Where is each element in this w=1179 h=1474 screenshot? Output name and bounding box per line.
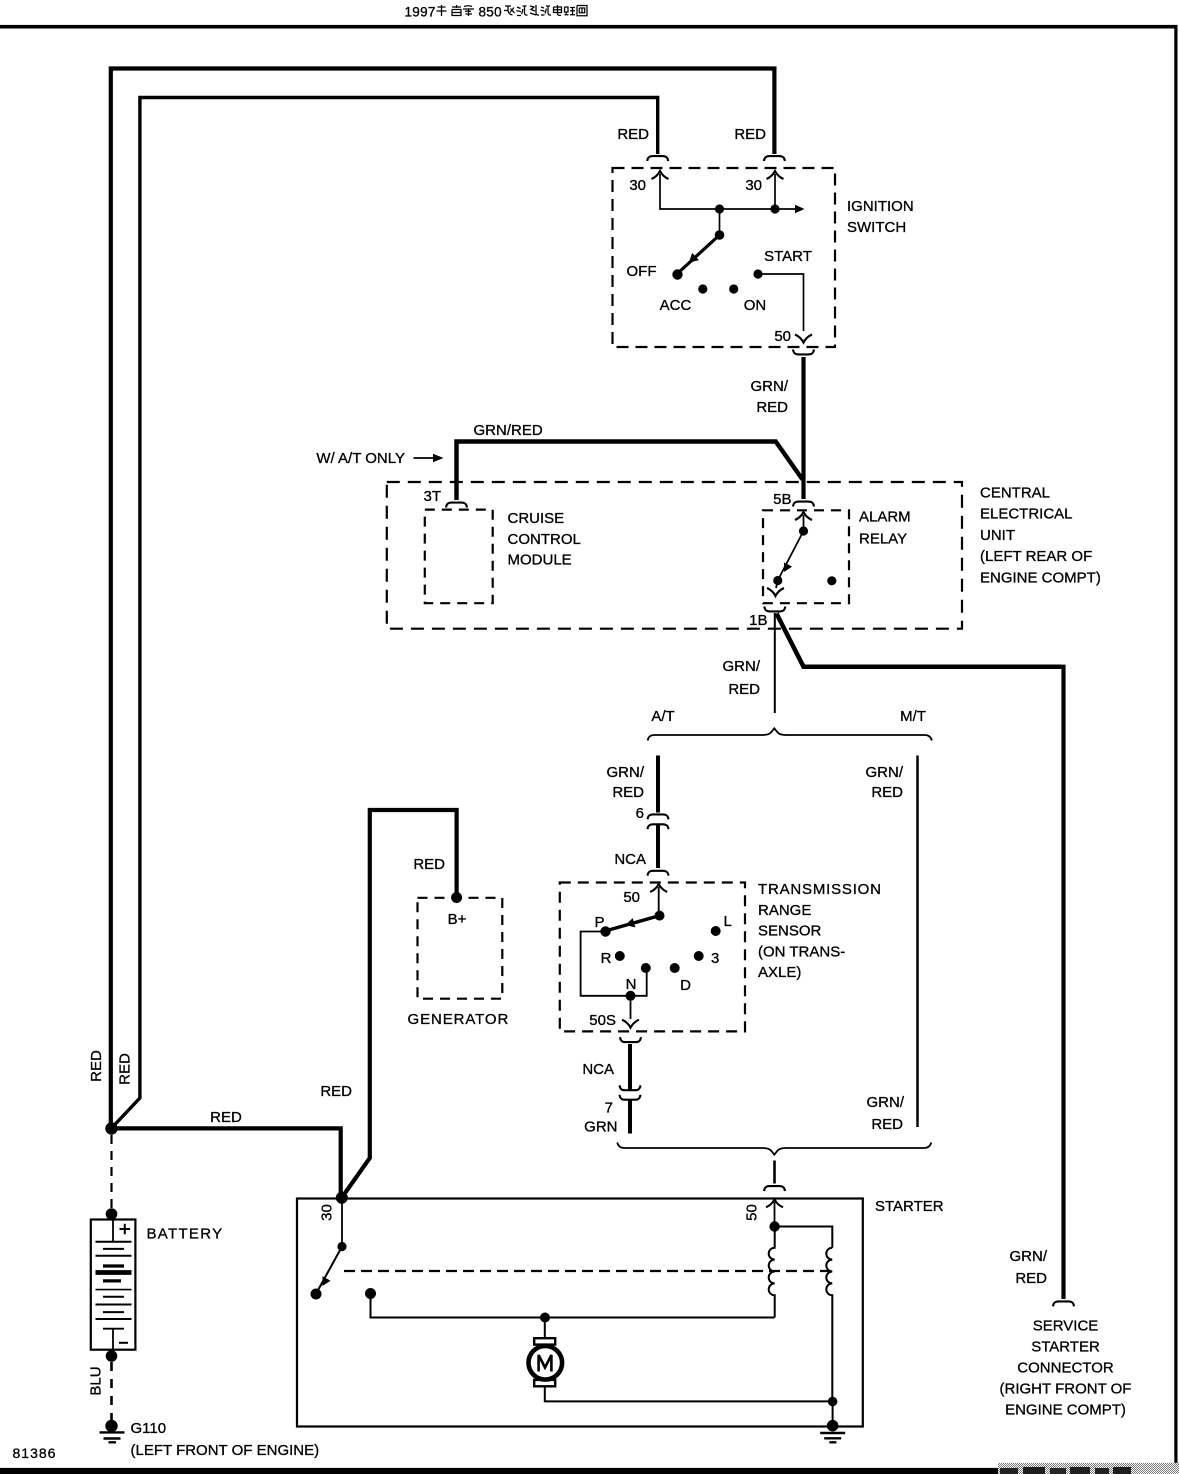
starter 30 terminal dot (336, 1192, 348, 1204)
contact 3 (694, 951, 704, 961)
wire: second feed (down left side, across, down to left ignition 30) (113, 98, 658, 1127)
alarm relay pin arrow + pole (795, 512, 812, 520)
svg-text:ACC: ACC (660, 297, 692, 314)
sensor pin 50S wire + arrow down (630, 996, 632, 1019)
svg-text:ENGINE COMPT): ENGINE COMPT) (980, 569, 1101, 586)
svg-text:3T: 3T (423, 488, 441, 505)
connector at 1B (764, 607, 785, 612)
contact START + wire to pin 50 (753, 269, 762, 278)
wire: 1B thick branch right to service starter connector (777, 614, 1062, 667)
pin 30 left: arrow + label (652, 171, 669, 179)
svg-text:NCA: NCA (582, 1061, 614, 1078)
svg-text:GRN/: GRN/ (867, 1094, 905, 1111)
wire: M/T branch GRN/RED down (916, 756, 919, 1128)
wire: 1B down to A/T-M/T brace (774, 613, 776, 713)
svg-text:ON: ON (744, 297, 767, 314)
svg-text:SWITCH: SWITCH (847, 219, 906, 236)
battery - dot (106, 1350, 118, 1362)
junction dot on bus (715, 204, 724, 213)
ignition internal bus wire (660, 174, 795, 209)
starter switch contact (365, 1288, 376, 1299)
svg-text:50: 50 (774, 328, 791, 345)
battery minus sign (119, 1342, 128, 1344)
svg-text:NCA: NCA (614, 851, 646, 868)
wire: A/T branch GRN/RED down (656, 756, 660, 813)
connector at starter 50 (764, 1186, 785, 1191)
connector at sensor 50 (648, 871, 669, 876)
ignition switch dashed box (613, 168, 836, 347)
svg-text:3: 3 (711, 950, 719, 967)
battery box (91, 1220, 136, 1350)
left pull-in coil (769, 1227, 775, 1318)
svg-text:TRANSMISSION: TRANSMISSION (758, 881, 882, 898)
svg-text:SERVICE: SERVICE (1033, 1318, 1099, 1335)
stub right 30 (774, 174, 776, 209)
svg-text:RED: RED (1015, 1270, 1047, 1287)
battery plus sign (120, 1224, 131, 1234)
svg-text:GRN/: GRN/ (866, 764, 904, 781)
brace to starter 50 (opens up) (617, 1143, 931, 1155)
svg-text:B+: B+ (448, 911, 467, 928)
svg-text:ALARM: ALARM (859, 509, 911, 526)
svg-text:M/T: M/T (900, 708, 926, 725)
svg-text:R: R (601, 950, 612, 967)
svg-text:1B: 1B (749, 612, 767, 629)
svg-text:SENSOR: SENSOR (758, 923, 822, 940)
svg-text:(LEFT REAR OF: (LEFT REAR OF (980, 548, 1092, 565)
starter 50 terminal arrow (766, 1199, 783, 1207)
svg-text:W/ A/T ONLY: W/ A/T ONLY (316, 450, 405, 467)
contact N junction (626, 991, 636, 1001)
svg-text:1997: 1997 (405, 5, 436, 20)
contact L (711, 926, 721, 936)
svg-text:A/T: A/T (651, 708, 674, 725)
svg-text:P: P (594, 914, 604, 931)
connector below ignition 50 (793, 350, 814, 355)
sensor pole dot (655, 911, 665, 921)
svg-text:81386: 81386 (13, 1445, 57, 1461)
wire: motor feed down (544, 1318, 546, 1339)
svg-text:850: 850 (479, 5, 502, 20)
svg-text:30: 30 (745, 177, 762, 194)
title: 1997年 富豪 850 起动系统电路图 (CJK drawn as glyph shapes) (405, 5, 588, 20)
svg-text:D: D (680, 977, 691, 994)
svg-text:RED: RED (413, 856, 445, 873)
wire: NCA to sensor (656, 825, 660, 869)
wire: motor return (545, 1386, 833, 1401)
junction dot 50 (769, 1221, 779, 1231)
switch lever (to OFF) (678, 235, 720, 273)
inline connector pair 7 (620, 1085, 641, 1090)
contact ON (729, 284, 738, 293)
cruise control module dashed box (425, 510, 493, 604)
motor M (534, 1338, 555, 1344)
svg-text:RED: RED (210, 1109, 242, 1126)
svg-text:50: 50 (623, 889, 640, 906)
connector below sensor 50S (620, 1037, 641, 1042)
brace A/T - M/T (opens down) (648, 728, 932, 740)
svg-text:RELAY: RELAY (859, 531, 907, 548)
generator dashed box (418, 898, 503, 999)
wire: battery feed (junction up, across top, down to right ignition 30) (111, 69, 775, 1129)
contact dot above N (641, 963, 651, 973)
connector at left 30 (647, 156, 668, 161)
wire P to N contact (581, 932, 647, 996)
connector at right 30 (764, 156, 785, 161)
svg-text:(LEFT FRONT OF ENGINE): (LEFT FRONT OF ENGINE) (131, 1442, 320, 1459)
svg-text:OFF: OFF (627, 263, 657, 280)
starter solenoid switch pole (341, 1198, 343, 1246)
connector at service starter end (1053, 1301, 1074, 1306)
starter ground (827, 1420, 839, 1432)
svg-text:ELECTRICAL: ELECTRICAL (980, 506, 1073, 523)
sensor pin 50 arrow (650, 884, 667, 892)
contact R (615, 951, 625, 961)
svg-text:30: 30 (319, 1204, 336, 1221)
sensor lever to P (607, 916, 660, 931)
svg-text:N: N (626, 976, 637, 993)
central electrical unit dashed box (387, 482, 962, 629)
battery internal plates (112, 1220, 114, 1242)
transmission range sensor dashed box (560, 883, 745, 1032)
watermark bottom-right (dithered) (998, 1463, 1179, 1474)
wire: contact to motor and coils (371, 1294, 775, 1318)
svg-text:RANGE: RANGE (758, 902, 811, 919)
connector at 5B (793, 502, 814, 507)
right hold-in coil (826, 1248, 832, 1402)
svg-text:BATTERY: BATTERY (147, 1226, 224, 1243)
svg-text:RED: RED (756, 399, 788, 416)
svg-text:7: 7 (605, 1100, 613, 1117)
svg-text:RED: RED (871, 784, 903, 801)
pin 30 right: arrow + label (767, 171, 784, 179)
svg-text:(ON TRANS-: (ON TRANS- (758, 943, 845, 960)
contact P (600, 926, 610, 936)
battery ground dashed lead (110, 1362, 113, 1420)
wire: GRN/RED branch to cruise control 3T (457, 442, 803, 501)
svg-text:GRN: GRN (584, 1119, 617, 1136)
alarm relay NC contact dot (827, 576, 836, 585)
svg-text:RED: RED (617, 126, 649, 143)
junction dot to motor (540, 1313, 550, 1323)
svg-text:RED: RED (871, 1116, 903, 1133)
svg-text:RED: RED (117, 1053, 134, 1085)
junction dot right bus (770, 204, 779, 213)
wire: brace to starter (773, 1161, 776, 1184)
starter solenoid lever (317, 1247, 342, 1293)
alarm relay output arrow down (776, 581, 778, 589)
solenoid plunger linkage (dashed) (344, 1270, 831, 1272)
battery dashed lead (110, 1135, 112, 1210)
starter box (297, 1199, 863, 1427)
svg-text:CRUISE: CRUISE (508, 510, 565, 527)
svg-text:L: L (724, 913, 732, 930)
junction dot (battery feed) (105, 1122, 117, 1134)
contact ACC (698, 284, 707, 293)
svg-text:IGNITION: IGNITION (847, 198, 914, 215)
svg-text:6: 6 (636, 805, 644, 822)
svg-text:30: 30 (629, 177, 646, 194)
generator B+ terminal dot (451, 892, 462, 903)
svg-text:RED: RED (734, 126, 766, 143)
bottom border bar (0, 1468, 998, 1474)
svg-text:MODULE: MODULE (508, 552, 572, 569)
junction dot right coil / motor return (828, 1397, 838, 1407)
alarm relay lever (779, 531, 804, 578)
switch pole stub (719, 209, 721, 235)
svg-text:G110: G110 (131, 1420, 167, 1437)
svg-text:RED: RED (728, 681, 760, 698)
wire to right coil (775, 1227, 833, 1248)
svg-text:RED: RED (612, 784, 644, 801)
wire below connector 7 (628, 1100, 632, 1133)
svg-text:(RIGHT FRONT OF: (RIGHT FRONT OF (1000, 1381, 1132, 1398)
battery + dot (106, 1208, 118, 1220)
wire: GRN/RED from ignition 50 down to 5B (801, 357, 805, 499)
wire: generator B+ to starter 30 (344, 810, 457, 1195)
svg-text:STARTER: STARTER (875, 1198, 944, 1215)
svg-text:GRN/: GRN/ (723, 658, 761, 675)
svg-text:GRN/: GRN/ (1010, 1248, 1048, 1265)
svg-text:CONTROL: CONTROL (508, 531, 581, 548)
svg-text:START: START (764, 248, 812, 265)
svg-text:GENERATOR: GENERATOR (408, 1011, 510, 1028)
wire: 50S down (NCA) (628, 1044, 632, 1090)
svg-text:UNIT: UNIT (980, 527, 1015, 544)
connector at 3T (446, 503, 467, 508)
wire: junction to starter 30 (112, 1128, 341, 1196)
svg-text:5B: 5B (773, 491, 791, 508)
svg-text:50S: 50S (589, 1012, 616, 1029)
svg-text:STARTER: STARTER (1031, 1339, 1100, 1356)
svg-text:RED: RED (88, 1050, 105, 1082)
svg-text:CENTRAL: CENTRAL (980, 485, 1050, 502)
alarm relay dashed box (763, 510, 849, 603)
svg-text:GRN/: GRN/ (607, 764, 645, 781)
svg-text:AXLE): AXLE) (758, 964, 801, 981)
right border (1174, 29, 1177, 1465)
top border bar (0, 25, 1178, 29)
contact D (670, 963, 680, 973)
svg-text:ENGINE COMPT): ENGINE COMPT) (1005, 1402, 1126, 1419)
svg-text:RED: RED (320, 1083, 352, 1100)
svg-text:GRN/: GRN/ (751, 378, 789, 395)
svg-text:CONNECTOR: CONNECTOR (1017, 1360, 1114, 1377)
svg-text:GRN/RED: GRN/RED (474, 422, 543, 439)
ground G110 (105, 1420, 117, 1432)
inline connector pair 6 (648, 814, 669, 819)
svg-text:50: 50 (744, 1204, 761, 1221)
wire: to starter ground (832, 1402, 834, 1426)
svg-text:BLU: BLU (88, 1366, 105, 1395)
